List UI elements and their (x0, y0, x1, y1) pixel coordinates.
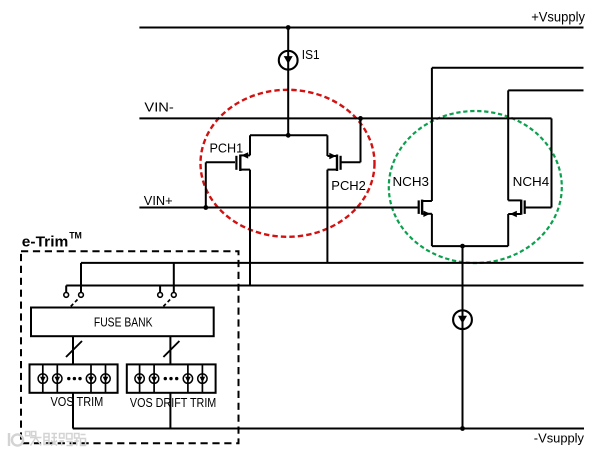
wire VIN- line (139, 117, 551, 119)
node junction dot VIN+ / PCH1 gate (203, 205, 208, 210)
node junction dot NCH tail (460, 244, 465, 249)
wire VIN- drop to NCH4 gate (551, 118, 553, 207)
VOS TRIM ellipsis dots (67, 377, 82, 380)
switch contact circle right of right pair (171, 293, 176, 298)
wire PCH2 gate drop (360, 118, 362, 162)
bus wire fuse bank to VOS TRIM (72, 336, 74, 364)
wire VOS TRIM to -Vsupply rail (72, 393, 74, 429)
wire +Vsupply rail (139, 27, 583, 29)
fuse bank box (31, 308, 214, 337)
wire NCH tail bar (432, 245, 508, 247)
wire VOS DRIFT TRIM to -Vsupply rail (169, 393, 171, 429)
wire output line 1 (PCH2 drain, to e-Trim switch) (81, 262, 584, 264)
VOS TRIM cell wires (43, 364, 106, 392)
switch actuator dashed (right) (163, 299, 171, 307)
node junction dot tail at -Vsupply (460, 426, 465, 431)
wire NCH4 drain up (507, 90, 509, 200)
bus wire fuse bank to VOS DRIFT TRIM (169, 336, 171, 364)
wire -Vsupply rail (73, 428, 584, 430)
switch contact wire from output line 2 (left pair) (65, 286, 67, 293)
wire NCH4 source down (507, 214, 509, 246)
svg-text:VOS TRIM: VOS TRIM (51, 395, 104, 409)
VOS DRIFT TRIM cell wires (140, 364, 203, 392)
wire NCH3 drain output line (432, 67, 584, 69)
wire PCH1 source up to bar (249, 135, 251, 155)
wire output line 2 (PCH1 drain, to e-Trim switch) (66, 285, 583, 287)
transistor NCH3 (419, 200, 432, 217)
svg-text:VOS DRIFT TRIM: VOS DRIFT TRIM (130, 396, 216, 410)
VOS DRIFT TRIM current source arrows (137, 377, 205, 383)
node junction dot IS1 at +Vsupply rail (286, 25, 291, 30)
bus slash VOS DRIFT TRIM (163, 341, 179, 357)
VOS DRIFT TRIM box (127, 364, 216, 392)
switch contact circle right of left pair (79, 293, 84, 298)
svg-text:e-Trim: e-Trim (22, 234, 69, 250)
transistor PCH2 (327, 153, 360, 171)
svg-text:VIN-: VIN- (144, 100, 173, 115)
switch actuator dashed (left) (71, 299, 79, 307)
VOS DRIFT TRIM current source circles (135, 374, 207, 383)
wire NCH4 drain output line (508, 89, 583, 91)
svg-text:FUSE BANK: FUSE BANK (94, 315, 153, 329)
transistor NCH4 (508, 200, 551, 218)
wire PCH1 gate drop (205, 162, 207, 207)
switch contact circle left of right pair (158, 293, 163, 298)
wire NCH tail down to -Vsupply (462, 246, 464, 428)
svg-text:TM: TM (69, 231, 82, 241)
wire VIN+ line to NCH3 gate (139, 207, 417, 209)
wire NCH3 drain up (431, 68, 433, 201)
current source IS1 (279, 51, 298, 70)
current source tail bias (453, 310, 472, 329)
wire PCH2 source up to bar (326, 135, 328, 156)
node junction dot PCH tail bar (286, 133, 291, 138)
svg-text:NCH4: NCH4 (513, 174, 550, 189)
wire IS1 branch from +Vsupply down to PCH tail bar (287, 28, 289, 136)
switch contact wire from output line 1 (left pair) (80, 263, 82, 293)
svg-text:NCH3: NCH3 (393, 174, 430, 189)
bus slash VOS TRIM (66, 341, 82, 357)
wire NCH3 source down (431, 214, 433, 246)
node junction dot VIN- / PCH2 gate (358, 116, 363, 121)
wire PCH tail bar (250, 134, 327, 136)
switch contact wire from output line 2 (right pair) (159, 286, 161, 293)
svg-text:PCH1: PCH1 (210, 141, 244, 156)
VOS TRIM current source arrows (40, 377, 108, 383)
VOS TRIM current source circles (38, 374, 110, 383)
wire PCH1 drain down to output line 2 (249, 170, 251, 286)
svg-text:IS1: IS1 (302, 47, 320, 62)
svg-text:+Vsupply: +Vsupply (531, 10, 585, 25)
watermark characters (30, 433, 86, 446)
svg-text:-Vsupply: -Vsupply (534, 431, 585, 446)
green ellipse NCH input pair highlight (389, 111, 562, 263)
VOS DRIFT TRIM ellipsis dots (164, 377, 179, 380)
red ellipse PCH input pair highlight (201, 90, 375, 237)
svg-text:PCH2: PCH2 (331, 178, 366, 193)
transistor PCH1 (206, 152, 250, 171)
watermark logo (9, 432, 36, 447)
svg-text:VIN+: VIN+ (144, 193, 173, 208)
VOS TRIM box (30, 364, 118, 392)
switch contact circle left of left pair (64, 293, 69, 298)
switch contact wire from output line 1 (right pair) (173, 263, 175, 293)
e-Trim block dashed box (21, 251, 239, 443)
wire PCH2 drain down to output line 1 (326, 170, 328, 263)
